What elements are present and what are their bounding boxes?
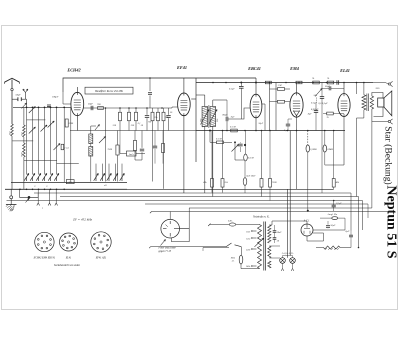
resistor 50k: [157, 112, 160, 121]
wire T2 connections: [204, 95, 206, 107]
svg-text:EBC41: EBC41: [247, 66, 261, 71]
svg-text:50nF: 50nF: [277, 232, 282, 234]
hanging resistor 7500: [269, 179, 272, 188]
svg-text:Sockelansicht von unten: Sockelansicht von unten: [54, 264, 81, 267]
shield box EM4 left edge: [275, 83, 277, 131]
svg-text:EF41 AZ1: EF41 AZ1: [95, 257, 107, 260]
capacitor osc grid: [145, 115, 149, 117]
hanging resistor 25k: [221, 179, 224, 188]
junction dots plate row: [105, 107, 107, 109]
svg-text:8µF: 8µF: [308, 114, 312, 116]
bus low 2: [34, 192, 351, 194]
wire mains top: [210, 224, 229, 226]
wire V5 top: [343, 83, 345, 94]
wire transformer bottom left: [363, 110, 365, 118]
meter 1mA box: [127, 151, 137, 156]
socket detector bracket: [172, 229, 190, 242]
resistor 2500 input: [65, 119, 68, 127]
hanging resistor e: [332, 179, 335, 188]
svg-text:0,8A: 0,8A: [228, 220, 233, 223]
resistor 0,1M vol: [217, 141, 224, 144]
svg-text:0,1/0,5µF: 0,1/0,5µF: [319, 102, 329, 105]
wire V2 plate to IF2: [191, 98, 196, 100]
svg-text:ZF = 452 kHz: ZF = 452 kHz: [73, 218, 93, 222]
IF T2 core: [208, 105, 210, 128]
hanging resistor 40k: [211, 179, 214, 188]
bus low 1: [127, 188, 334, 190]
wire heater lamps: [269, 245, 280, 247]
resistor 1mA input: [61, 144, 64, 150]
wire V5 bottom: [343, 117, 345, 166]
tube V2 EF41 envelope: [178, 93, 191, 116]
power transformer secondary LT2: [268, 261, 271, 268]
wire V4 top: [296, 83, 298, 93]
wire mains switch long: [151, 246, 227, 248]
dangling connector a: [37, 189, 39, 203]
svg-text:220v: 220v: [246, 250, 250, 252]
mains terminal tick: [208, 224, 210, 226]
capacitor 0,1uF rail: [239, 85, 244, 87]
wire output vertical right: [371, 122, 373, 209]
resistor zigzag mains drop: [324, 246, 341, 249]
resistor mains oval: [239, 255, 243, 264]
svg-text:Netztrafo m. K.: Netztrafo m. K.: [252, 215, 270, 218]
svg-text:8µF 50nF: 8µF 50nF: [247, 176, 257, 178]
resistor 700 V1: [98, 107, 104, 110]
svg-text:A-Z 1: A-Z 1: [303, 219, 311, 222]
junction dots antenna row: [26, 107, 28, 109]
svg-text:EL41: EL41: [65, 257, 72, 260]
capacitor 0,1uF top right: [332, 204, 336, 206]
power transformer primary: [258, 225, 262, 269]
dial lamp 2: [290, 258, 296, 264]
bandfilter label box: [85, 87, 133, 94]
dial lamp 1: [280, 258, 286, 264]
boxed label 385: [66, 180, 74, 184]
svg-text:Ausgl. Ela: Ausgl. Ela: [327, 213, 339, 216]
resistor 0,1M det: [231, 129, 238, 132]
verticals heater pair: [287, 189, 289, 258]
svg-text:a: a: [42, 208, 43, 210]
svg-text:0,1µF: 0,1µF: [229, 88, 235, 91]
junction dots rail: [212, 82, 214, 84]
svg-text:50pF: 50pF: [88, 103, 93, 106]
capacitor 50nF col: [320, 96, 324, 98]
tube V3 EBC41 envelope: [250, 94, 262, 118]
resistor 7k b: [327, 81, 334, 84]
resistor 0,1M: [135, 112, 138, 121]
wire ground branch: [20, 189, 39, 197]
coil L2 750: [23, 125, 26, 137]
wire input horizontals: [27, 119, 46, 121]
ground main: [10, 203, 12, 204]
socket view ECH42: [35, 232, 54, 251]
wire V2 bottom: [183, 116, 185, 193]
resistor 1M EM4 a: [278, 88, 285, 91]
capacitor pad 2: [166, 115, 170, 117]
wire HT to rectifier: [269, 224, 272, 226]
wire EM4 bottom: [296, 117, 298, 189]
resistor 1M EM4 b: [278, 100, 285, 103]
svg-text:125v: 125v: [246, 239, 250, 241]
wire socket to bus: [188, 208, 190, 229]
svg-text:8 µF: 8 µF: [284, 129, 289, 132]
svg-text:ECH42 EM4 EBC41: ECH42 EM4 EBC41: [33, 257, 56, 260]
wire EL41 aux down: [315, 120, 317, 131]
output terminal fork bottom: [388, 120, 390, 122]
wire to V3 grid: [228, 108, 250, 119]
wire meter: [120, 153, 127, 155]
tube V1 ECH42 envelope: [71, 92, 84, 115]
svg-text:2×6,3v 0,2A: 2×6,3v 0,2A: [282, 252, 294, 255]
wire V2 top stub: [183, 78, 185, 93]
wires EL41 aux: [315, 103, 317, 111]
capacitors 50nF pair: [273, 230, 277, 232]
switch arrow b: [29, 107, 36, 114]
hanging resistor 0,1M lower: [260, 179, 263, 188]
resistor 250 osc: [119, 112, 122, 121]
wire V3 top: [255, 78, 257, 94]
svg-text:ECH42: ECH42: [66, 68, 81, 73]
capacitor 50uF EL41: [328, 86, 330, 90]
trim arrow osc: [95, 125, 100, 131]
bus low 4: [7, 200, 363, 202]
svg-text:0,1µF: 0,1µF: [336, 203, 342, 205]
wire lamps bottom: [282, 263, 284, 268]
resistor 7500 tall: [116, 145, 119, 155]
socket detector circle: [161, 219, 180, 238]
socket view EBC41: [91, 232, 111, 252]
bus low 3: [60, 196, 359, 198]
verticals to lower bus: [105, 108, 107, 182]
wire antenna down-lead: [11, 91, 13, 124]
wire V3 bottom: [255, 118, 257, 131]
power transformer secondary LT1: [268, 246, 271, 258]
wire mid bus: [70, 130, 196, 132]
wire speaker loop bottom: [371, 109, 373, 122]
resistor rail mid: [265, 81, 271, 84]
resistor osc extra: [162, 144, 165, 153]
speaker driver: [378, 98, 384, 107]
wire V3 right pin: [262, 103, 265, 105]
wire V1 grid top: [76, 87, 78, 92]
vertical wires input grid: [26, 107, 28, 174]
wire V1 plate row: [84, 107, 172, 109]
potentiometer volume: [232, 145, 239, 152]
svg-text:M.B.: M.B.: [230, 257, 236, 259]
wire mains bottom: [240, 264, 242, 269]
switch arrow f: [54, 144, 61, 151]
resistor 25k: [151, 112, 154, 121]
svg-text:0,1MΩ: 0,1MΩ: [310, 149, 317, 151]
svg-text:EM4: EM4: [289, 66, 299, 71]
dangling connector c: [55, 189, 57, 203]
resistor 0,5M oval: [244, 154, 248, 161]
svg-text:240v: 240v: [246, 265, 250, 268]
wire vertical x322: [321, 108, 323, 193]
coil osc feedback 800: [89, 134, 93, 144]
bus low 6: [189, 207, 372, 209]
capacitor oval 8uF lower: [243, 178, 247, 186]
IF transformer T2 secondary: [210, 107, 216, 127]
svg-text:50µF: 50µF: [331, 225, 337, 227]
bus low 7: [152, 211, 393, 213]
wires EM4 left: [269, 83, 271, 131]
switch contact a: [22, 103, 27, 109]
svg-text:Neptun 51 S: Neptun 51 S: [384, 185, 399, 258]
bus low 5: [145, 203, 368, 205]
wire V1 left pin: [63, 103, 71, 105]
switch arrow c: [29, 127, 36, 134]
svg-text:50µF: 50µF: [325, 86, 331, 88]
svg-text:1 mA: 1 mA: [64, 146, 69, 149]
svg-text:EL41: EL41: [339, 68, 350, 73]
svg-text:12.: 12.: [232, 260, 235, 262]
wires rectifier: [313, 229, 345, 231]
svg-text:EF41: EF41: [176, 65, 187, 70]
svg-text:50pF: 50pF: [259, 123, 264, 125]
svg-text:25k: 25k: [154, 117, 157, 119]
speaker cone: [384, 91, 392, 116]
resistor oval 1M: [323, 145, 327, 152]
socket detector arrow: [161, 240, 166, 246]
switch arrow d: [48, 121, 55, 128]
bus AVC lower: [11, 181, 127, 183]
svg-text:100pF: 100pF: [52, 96, 59, 99]
resistor 350 tall: [133, 141, 136, 151]
resistor rail EM4: [296, 81, 302, 84]
svg-text:50pF: 50pF: [16, 93, 22, 96]
wire osc coil vertical: [90, 126, 92, 134]
svg-text:80pF: 80pF: [223, 114, 228, 117]
svg-text:10MΩ: 10MΩ: [327, 149, 333, 151]
capacitor 8uF EM4: [286, 123, 290, 125]
tube V5 EL41 envelope: [338, 94, 350, 117]
output terminal fork top: [388, 83, 390, 85]
output transformer core: [366, 94, 368, 112]
tuning trimmer bank 1: [26, 177, 28, 181]
coil L1 350: [11, 124, 14, 136]
capacitor osc extra: [153, 145, 157, 147]
resistor oval 0,1M: [306, 145, 310, 152]
voltage selector arm: [255, 238, 264, 247]
output transformer secondary zigzag: [370, 96, 373, 109]
svg-text:Bandfilter Kurve 452 kHz: Bandfilter Kurve 452 kHz: [95, 90, 124, 93]
resistor 70k: [162, 112, 165, 121]
power transformer core: [263, 222, 265, 271]
dangling connector b: [49, 189, 51, 203]
antenna connector: [11, 88, 13, 90]
resistor 7k c: [327, 112, 334, 115]
output transformer primary zigzag: [362, 95, 366, 110]
socket view EF41: [60, 233, 78, 251]
wire V1 cathode bottom: [76, 116, 78, 131]
bus detector long: [196, 130, 345, 132]
junction dots bus: [19, 189, 21, 191]
wire AVC drop mid: [149, 78, 151, 91]
junction dot det: [244, 144, 246, 146]
tube V4 EM4 envelope: [290, 93, 303, 117]
tube AZ1 rectifier: [301, 224, 313, 236]
fuse mains: [229, 223, 235, 226]
bus main dark: [5, 188, 127, 190]
capacitor 50pF det: [238, 143, 242, 145]
coil osc 1500: [89, 147, 93, 157]
switch arrow osc low: [99, 137, 106, 144]
wire speaker loop top: [372, 93, 383, 99]
svg-text:8µF: 8µF: [346, 230, 351, 233]
svg-text:gegen 7×13: gegen 7×13: [159, 250, 172, 253]
mains switch contact: [226, 243, 232, 247]
ground terminal circle: [10, 196, 13, 199]
svg-text:2025: 2025: [376, 88, 380, 90]
resistor 3500: [128, 112, 131, 121]
capacitor 8uF EL41: [314, 110, 318, 112]
IF transformer T2 primary: [202, 107, 208, 127]
resistor 7k a: [313, 81, 320, 84]
IF T2 trim arrows: [201, 110, 210, 125]
capacitor blob ground branch: [28, 196, 31, 199]
wire selector to switch: [203, 247, 229, 249]
capacitor mid: [140, 148, 144, 150]
wire bandfilter frame: [63, 78, 256, 92]
bus B+ rail: [196, 82, 373, 84]
EM4 target wedge: [293, 111, 296, 116]
svg-text:1mA: 1mA: [129, 153, 134, 156]
capacitor 50pF V1 plate: [90, 106, 92, 110]
bus input top row: [13, 106, 71, 108]
wire V2 left pin: [172, 106, 178, 108]
capacitor 50uF rect: [326, 225, 330, 227]
power transformer secondary HT: [268, 225, 271, 243]
antenna: [5, 78, 20, 82]
switch tone: [315, 89, 322, 97]
aerial dipole terminal: [24, 93, 26, 100]
capacitor top EL41: [336, 80, 338, 84]
wires right power: [350, 193, 352, 231]
switch arrow e: [41, 125, 48, 132]
svg-text:Star (Beckung): Star (Beckung): [383, 126, 394, 185]
tuning trimmer bank 2: [95, 164, 97, 177]
coil L3 75000: [23, 143, 26, 157]
svg-text:110v: 110v: [246, 232, 250, 234]
